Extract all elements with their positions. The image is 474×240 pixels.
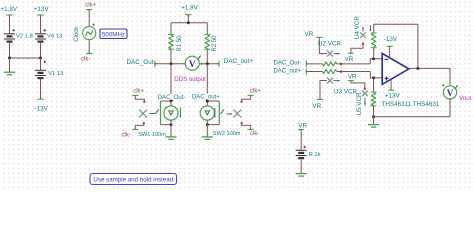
svg-text:U4 VCR: U4 VCR <box>354 16 361 40</box>
svg-text:SW2 100m: SW2 100m <box>213 131 241 137</box>
svg-text:V2 1.8: V2 1.8 <box>16 34 33 40</box>
svg-text:Use sample and hold instead: Use sample and hold instead <box>93 177 173 184</box>
svg-text:DAC_out+: DAC_out+ <box>224 58 254 65</box>
svg-text:R2 50: R2 50 <box>212 35 218 52</box>
svg-text:DAC_Out-: DAC_Out- <box>127 59 156 66</box>
svg-text:DDS output: DDS output <box>174 76 206 83</box>
svg-text:U3 VCR: U3 VCR <box>334 89 358 96</box>
svg-text:clk+: clk+ <box>85 3 96 9</box>
svg-text:R 1k: R 1k <box>309 152 321 158</box>
svg-text:VR: VR <box>312 103 321 110</box>
svg-text:V1 13: V1 13 <box>48 71 63 77</box>
svg-text:VR: VR <box>348 73 357 80</box>
svg-text:U2 VCR: U2 VCR <box>318 41 342 48</box>
svg-text:clk-: clk- <box>122 133 131 139</box>
svg-text:+1.8V: +1.8V <box>181 4 198 11</box>
svg-text:clk-: clk- <box>250 131 259 137</box>
svg-text:clk-: clk- <box>81 57 90 63</box>
svg-text:DAC_out+: DAC_out+ <box>273 68 301 74</box>
svg-text:THS46311 THS4631: THS46311 THS4631 <box>382 101 440 108</box>
svg-text:clk+: clk+ <box>133 89 144 95</box>
svg-text:V: V <box>447 88 454 98</box>
svg-text:VR: VR <box>298 122 307 129</box>
svg-text:VR: VR <box>305 31 314 38</box>
svg-text:V4 13: V4 13 <box>47 34 62 40</box>
svg-text:V: V <box>189 60 196 70</box>
svg-text:-13V: -13V <box>35 105 49 112</box>
svg-text:-13V: -13V <box>384 36 398 43</box>
svg-text:+13V: +13V <box>34 6 50 13</box>
svg-text:+1.8V: +1.8V <box>1 6 18 13</box>
svg-text:DAC_out+: DAC_out+ <box>192 94 220 100</box>
svg-text:+13V: +13V <box>385 93 401 100</box>
svg-text:VR: VR <box>345 56 354 63</box>
svg-text:DAC_Out-: DAC_Out- <box>274 61 302 67</box>
svg-text:U5 VCR: U5 VCR <box>356 92 363 116</box>
svg-text:Clock: Clock <box>74 26 80 42</box>
svg-text:SW1 100m: SW1 100m <box>138 132 166 138</box>
svg-text:clk+: clk+ <box>250 88 261 94</box>
svg-text:R1 50: R1 50 <box>177 35 183 52</box>
svg-text:Vout: Vout <box>459 95 472 102</box>
svg-text:500MHz: 500MHz <box>102 31 125 38</box>
